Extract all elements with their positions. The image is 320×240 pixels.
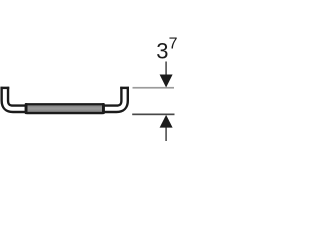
grip sleeve right end cap (102, 103, 105, 114)
grip sleeve left end cap (25, 103, 28, 114)
dimension leader upper tail (165, 62, 166, 76)
svg-text:7: 7 (169, 36, 178, 53)
grip sleeve body (26, 104, 104, 113)
dimension leader lower tail (165, 128, 166, 142)
extension line bottom (132, 114, 174, 116)
svg-text:3: 3 (156, 38, 168, 63)
handrail tube outline (5, 87, 125, 109)
dimension arrow down (160, 75, 173, 88)
dimension arrow up (160, 115, 173, 128)
right tube end cap (120, 87, 129, 89)
extension line top (133, 87, 175, 89)
left tube end cap (0, 87, 9, 89)
handrail tube bore (white inner) (5, 87, 125, 109)
